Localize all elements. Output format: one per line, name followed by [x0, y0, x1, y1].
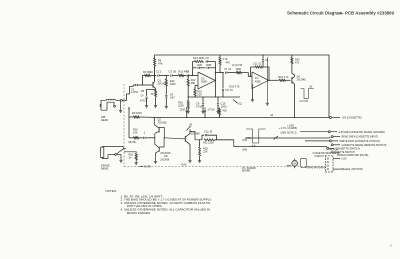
svg-text:1K: 1K	[129, 156, 132, 159]
ground U2 noninv	[251, 100, 254, 102]
ground C9	[201, 111, 204, 113]
svg-text:A-B GND (CASSETTE SIGNAL GROU: A-B GND (CASSETTE SIGNAL GROUND)	[339, 131, 386, 134]
svg-text:R13 100K: R13 100K	[193, 56, 205, 60]
capacitor C5 feedback	[206, 56, 216, 63]
waveform bias pulse	[246, 129, 266, 148]
capacitor C12 bias	[180, 108, 188, 119]
label mute arrow	[140, 165, 152, 169]
ground R20	[198, 161, 201, 163]
capacitor C10	[217, 97, 227, 111]
svg-text:+12V: +12V	[341, 158, 347, 161]
resistor R4	[154, 58, 163, 66]
svg-text:+B: +B	[189, 124, 192, 127]
label R22	[230, 86, 241, 89]
wire interstage	[215, 72, 224, 73]
svg-text:1K: 1K	[151, 93, 154, 96]
resistor R19 feedback U2	[251, 62, 269, 80]
svg-text:2.2/16: 2.2/16	[131, 90, 139, 94]
svg-text:10K: 10K	[197, 93, 202, 97]
wire RC node	[189, 139, 191, 141]
svg-text:.1/7.5V: .1/7.5V	[207, 109, 215, 112]
wire Q3 to RC	[190, 132, 202, 140]
svg-text:CIRCUIT: CIRCUIT	[315, 156, 325, 158]
op-amp U2	[252, 72, 269, 89]
svg-text:C2 1: C2 1	[156, 69, 162, 73]
wire U2 feedback left	[251, 67, 252, 76]
motor M	[292, 159, 298, 169]
resistor R16	[133, 127, 143, 138]
svg-text:47K: 47K	[158, 62, 163, 66]
terminal GND	[300, 131, 385, 134]
waveform output pulse	[300, 86, 314, 103]
svg-text:READ DATA (CASSETTE INPUT): READ DATA (CASSETTE INPUT)	[342, 136, 379, 139]
svg-text:(C): (C)	[239, 102, 243, 106]
resistor R11	[179, 69, 189, 76]
svg-text:45K: 45K	[191, 81, 196, 85]
svg-text:R3 390K: R3 390K	[143, 70, 153, 74]
svg-text:Schematic Circuit Diagram: Schematic Circuit Diagram	[287, 11, 342, 16]
label microcomputer	[332, 151, 369, 157]
svg-text:M: M	[294, 162, 296, 166]
capacitor C6	[184, 69, 192, 76]
svg-text:BOARD: BOARD	[242, 170, 251, 173]
svg-text:2SC458: 2SC458	[160, 158, 169, 161]
svg-text:P.C. BOARD: P.C. BOARD	[242, 167, 256, 170]
capacitor C7i	[224, 68, 236, 74]
connector pins row	[307, 167, 326, 169]
ground head shield	[119, 111, 122, 113]
label cassette circuit	[313, 152, 340, 158]
svg-text:CASSETTE SWITCH: CASSETTE SWITCH	[336, 147, 360, 151]
svg-text:4558: 4558	[201, 81, 207, 84]
svg-text:P10: P10	[331, 152, 336, 154]
capacitor C13	[202, 130, 217, 140]
ground U2 branch	[266, 103, 269, 105]
resistor R15	[194, 89, 203, 97]
wire mute branch	[124, 152, 136, 154]
svg-text:+5V (CASSETTE): +5V (CASSETTE)	[342, 117, 362, 120]
svg-text:C8 .01: C8 .01	[226, 89, 234, 92]
arrow node C	[233, 100, 242, 106]
svg-text:2SC458: 2SC458	[158, 121, 167, 124]
label +B	[270, 114, 273, 117]
svg-text:100K: 100K	[236, 68, 242, 71]
svg-text:R23 4.7K: R23 4.7K	[279, 76, 290, 79]
wire input vertical	[128, 107, 129, 138]
wire R9 input	[129, 116, 134, 118]
ground R18	[187, 111, 190, 113]
capacitor C1	[131, 84, 139, 94]
wire mute rail to Q4	[164, 138, 183, 139]
resistor R21	[203, 139, 234, 145]
resistor R18	[178, 96, 189, 111]
resistor R3	[143, 70, 155, 85]
resistor R20	[199, 139, 209, 160]
svg-text:R22 4.7K: R22 4.7K	[230, 86, 241, 89]
ground Q4m emitter	[188, 161, 191, 163]
resistor R25 bias	[219, 108, 228, 119]
svg-text:MUTE: MUTE	[129, 140, 137, 144]
svg-text:2200: 2200	[180, 109, 186, 112]
wire mid rail	[188, 96, 240, 97]
dashed boundary vertical	[123, 84, 125, 167]
svg-text:10K: 10K	[133, 131, 138, 135]
resistor R12	[187, 75, 196, 97]
label P10	[330, 150, 339, 155]
label 5.8V	[287, 125, 294, 128]
wire head input step	[122, 85, 133, 100]
label erase head	[101, 164, 110, 171]
svg-text:47/16: 47/16	[196, 106, 203, 109]
wire U1 inv input	[192, 75, 198, 76]
svg-text:C5: C5	[206, 56, 210, 60]
resistor R17 from bus	[219, 54, 230, 73]
wire sense line	[234, 140, 327, 147]
resistor R10	[165, 75, 176, 86]
wire U2 gnd branch	[266, 57, 268, 103]
svg-text:MUTE: MUTE	[144, 165, 152, 169]
dashed boundary horizontal	[124, 166, 326, 168]
capacitor C11 bus	[262, 54, 269, 67]
svg-text:MICRO FARADS.: MICRO FARADS.	[127, 211, 152, 215]
svg-text:(MOTOR): (MOTOR)	[352, 167, 363, 171]
wire switch to mute	[124, 148, 127, 150]
wire Q4 emitter	[294, 84, 295, 118]
svg-text:CASSETTE MECHANISM: CASSETTE MECHANISM	[313, 152, 340, 155]
switch S1	[108, 147, 124, 156]
svg-text:NOTES:: NOTES:	[106, 189, 117, 193]
svg-text:C6: C6	[186, 69, 190, 73]
wire U2 output	[268, 80, 278, 81]
svg-text:10/16: 10/16	[221, 106, 228, 109]
svg-text:.0056: .0056	[206, 65, 213, 67]
node head terminal	[120, 99, 122, 101]
terminal cassette switch	[327, 147, 360, 151]
svg-text:42K: 42K	[223, 110, 228, 113]
transistor Q3	[155, 138, 164, 161]
label MUTE upper	[129, 140, 137, 144]
label Q2	[158, 119, 167, 125]
svg-text:C7 .01: C7 .01	[224, 68, 232, 71]
resistor R19m	[129, 154, 138, 161]
wire Q2 base rail	[129, 137, 134, 139]
wire +5V top bus	[155, 55, 329, 118]
capacitor C4	[165, 86, 175, 106]
capacitor C14 bias	[204, 108, 215, 119]
resistor R14	[236, 68, 253, 76]
svg-text:C11 .02: C11 .02	[253, 62, 262, 65]
resistor R5	[141, 90, 157, 106]
ground Q1 emitter R5	[154, 106, 157, 108]
label P6	[243, 139, 248, 151]
transistor Q2	[154, 117, 165, 144]
ground C4	[165, 106, 168, 108]
transistor Q1	[153, 79, 167, 89]
svg-text:4558: 4558	[255, 80, 261, 83]
svg-text:.047: .047	[170, 96, 176, 100]
svg-text:R9 100K: R9 100K	[132, 111, 142, 115]
op-amp U1	[198, 72, 215, 89]
svg-text:PCB Assembly #233809: PCB Assembly #233809	[345, 11, 394, 16]
svg-text:(P6): (P6)	[243, 149, 248, 152]
svg-text:—: —	[339, 11, 344, 16]
svg-text:47K: 47K	[226, 62, 231, 65]
playback head	[100, 99, 120, 110]
svg-text:+ 1.7V (-0.0005): + 1.7V (-0.0005)	[279, 126, 298, 130]
capacitor C2	[155, 69, 170, 76]
resistor R13 feedback	[193, 56, 205, 63]
solenoid	[301, 158, 307, 167]
svg-text:2200: 2200	[170, 82, 176, 86]
page number	[390, 244, 392, 248]
capacitor C8	[222, 73, 233, 97]
terminal read data	[331, 136, 378, 139]
wire U2 noninv	[251, 85, 253, 100]
arrow bias	[274, 136, 278, 139]
wire U1 feedback left	[192, 62, 194, 76]
capacitor C3	[169, 69, 179, 76]
resistor R24	[291, 54, 300, 73]
svg-text:47/6.3: 47/6.3	[140, 101, 147, 103]
svg-text:(SEE NOTE 2): (SEE NOTE 2)	[281, 132, 297, 135]
svg-text:2200: 2200	[178, 104, 184, 108]
wire Q1 collector node	[154, 66, 155, 82]
resistor R23	[279, 76, 291, 82]
wire Q1 base	[139, 84, 154, 86]
wire U1 noninv input	[195, 86, 198, 90]
label P/B head	[101, 115, 108, 122]
svg-text:22K: 22K	[203, 150, 208, 154]
wire U1 output	[215, 62, 216, 98]
arrow to B plus	[187, 124, 193, 131]
arrow motor	[287, 165, 292, 166]
svg-text:2SC945: 2SC945	[297, 78, 307, 82]
wire Q1 emitter	[147, 88, 156, 96]
wire motor +12V	[333, 158, 347, 161]
title text	[287, 11, 394, 16]
wire Q3 out node	[189, 130, 191, 132]
wire switch ground	[117, 155, 121, 161]
wire head shield to ground	[120, 101, 122, 110]
svg-text:2SC458: 2SC458	[191, 133, 200, 136]
svg-text:0.6 0.8V: 0.6 0.8V	[300, 101, 309, 103]
terminal cassette sense	[331, 144, 386, 147]
svg-text:-5.8V: -5.8V	[181, 164, 187, 167]
wire read data	[245, 137, 331, 138]
svg-text:+B: +B	[270, 114, 273, 117]
svg-text:HEAD: HEAD	[101, 118, 108, 122]
svg-text:HEAD: HEAD	[101, 167, 108, 171]
svg-text:C3 .56: C3 .56	[169, 69, 177, 73]
transistor Q4m	[183, 133, 200, 143]
wire Q4m collector	[188, 132, 190, 135]
svg-text:CASSETTE SENSE (REMOTE SWITCH: CASSETTE SENSE (REMOTE SWITCH)	[342, 144, 387, 147]
capacitor C7 feedback row2	[193, 65, 216, 69]
erase head	[101, 147, 124, 159]
terminal +5V	[330, 117, 362, 120]
label 47/16	[232, 64, 243, 67]
ground Q3 emitter pair	[154, 162, 157, 164]
svg-text:470: 470	[295, 62, 300, 65]
svg-text:WRITE DATA (CASSETTE OUTPUT): WRITE DATA (CASSETTE OUTPUT)	[340, 140, 381, 143]
notes text block	[106, 189, 212, 215]
label Q3 alt	[160, 152, 171, 161]
svg-text:.0047: .0047	[197, 65, 204, 67]
resistor R9	[132, 111, 154, 118]
ground R19m	[135, 160, 138, 165]
ground Q1 emitter cap	[145, 106, 148, 108]
label bias value	[279, 126, 298, 135]
wire Q4 collector	[292, 73, 295, 76]
terminal write data	[305, 140, 380, 143]
label -5.8V	[181, 164, 187, 167]
connector P10 pins	[327, 158, 329, 170]
svg-text:(C) 47/16: (C) 47/16	[232, 64, 243, 67]
transistor Q4	[292, 75, 306, 84]
capacitor C5e	[140, 95, 148, 105]
wire +5V rail	[155, 117, 330, 119]
wire motor out	[333, 167, 363, 171]
svg-text:5V: 5V	[310, 86, 313, 88]
wire Q4m emitter	[188, 143, 190, 161]
connector P10 box	[326, 156, 334, 172]
svg-text:A-A: A-A	[252, 145, 256, 148]
label PC board	[242, 167, 256, 173]
ground switch	[119, 160, 122, 162]
svg-text:MOTOR: MOTOR	[330, 150, 339, 152]
svg-text:C13 .01: C13 .01	[204, 130, 213, 133]
capacitor C15	[143, 131, 155, 139]
capacitor C9	[196, 97, 204, 111]
ground C10	[216, 111, 219, 113]
svg-text:R21 2200: R21 2200	[203, 142, 214, 145]
